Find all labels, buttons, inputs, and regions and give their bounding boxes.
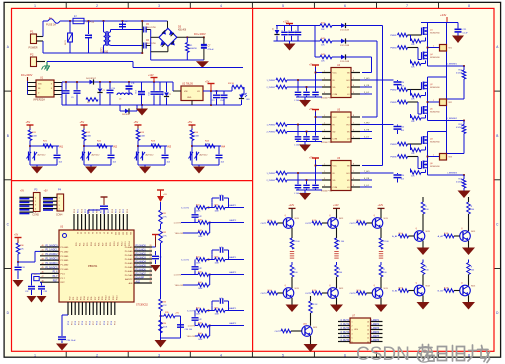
svg-text:1_OUT1: 1_OUT1: [187, 326, 195, 328]
svg-text:P311: P311: [109, 296, 111, 300]
svg-text:4: 4: [220, 4, 222, 8]
svg-text:P1.5/AD: P1.5/AD: [61, 268, 69, 271]
svg-text:P28: P28: [106, 243, 108, 246]
resistor Rg2a: [390, 87, 421, 92]
svg-text:47: 47: [42, 276, 44, 278]
svg-text:6: 6: [353, 85, 354, 87]
varistor RV1: [65, 33, 72, 45]
svg-text:R3 1K: R3 1K: [228, 83, 235, 85]
capacitor C24: [216, 146, 225, 165]
svg-text:3_OUT1: 3_OUT1: [181, 260, 190, 262]
svg-text:P1.2/ADC2: P1.2/ADC2: [46, 253, 59, 256]
svg-text:3_OUT1: 3_OUT1: [340, 320, 349, 322]
svg-text:IR2104 PT04: IR2104 PT04: [321, 191, 332, 193]
resistor Ra U4: [266, 78, 322, 82]
resistor R22: [97, 141, 107, 148]
svg-text:+5V: +5V: [163, 194, 167, 196]
wire: [69, 52, 71, 54]
svg-text:2_PWM1: 2_PWM1: [266, 132, 275, 134]
svg-text:2: 2: [324, 123, 325, 125]
svg-text:4.7K: 4.7K: [163, 236, 168, 238]
svg-text:100K: 100K: [194, 136, 200, 138]
ground: [27, 296, 37, 303]
svg-text:EA/VPP: EA/VPP: [125, 278, 133, 281]
svg-text:P0.1/AD1: P0.1/AD1: [136, 248, 147, 251]
bridge rectifier D5: [159, 26, 187, 47]
wire: [103, 45, 105, 53]
wire: [110, 44, 112, 46]
svg-text:P29: P29: [110, 243, 112, 246]
junction: [103, 20, 105, 22]
svg-text:YELLOW: YELLOW: [175, 233, 183, 235]
zener D7: [97, 82, 105, 105]
ground: [85, 167, 97, 174]
svg-text:P20: P20: [76, 243, 78, 246]
ground: [155, 340, 167, 348]
svg-text:9013: 9013: [426, 231, 430, 233]
watermark chinese characters: [419, 347, 432, 349]
svg-text:3: 3: [352, 330, 353, 332]
svg-text:B_B2: B_B2: [438, 291, 444, 293]
wire: [463, 79, 465, 99]
power +5V U5: [309, 109, 322, 117]
capacitor C6: [142, 40, 156, 48]
power +5V: [205, 81, 215, 92]
transistor cell Q31: [392, 197, 430, 255]
capacitor CX2: [119, 21, 128, 27]
svg-text:B_B1: B_B1: [392, 291, 398, 293]
diode D6: [86, 78, 97, 85]
svg-text:CON5: CON5: [32, 215, 39, 217]
capacitor C14: [157, 82, 164, 105]
wire: [150, 30, 152, 61]
svg-text:P1.2/AD: P1.2/AD: [61, 255, 69, 258]
svg-text:2: 2: [324, 78, 325, 80]
svg-text:5: 5: [353, 185, 354, 187]
capacitors U6 input: [294, 165, 322, 195]
svg-text:P0.2/AD2: P0.2/AD2: [136, 252, 147, 255]
svg-text:FUSE 3A: FUSE 3A: [46, 24, 56, 27]
wire: [141, 21, 143, 53]
resistor R35: [161, 312, 181, 318]
ground: [458, 191, 471, 199]
svg-text:33: 33: [87, 232, 89, 234]
svg-text:7: 7: [353, 123, 354, 125]
svg-text:3_OUT5: 3_OUT5: [340, 336, 349, 338]
svg-text:+12V: +12V: [378, 204, 384, 207]
resistor R14: [190, 129, 199, 141]
LED D10: [239, 93, 251, 105]
capacitors U5 input: [294, 116, 322, 146]
svg-text:9013: 9013: [313, 327, 317, 329]
junction: [160, 315, 162, 317]
capacitor C16: [220, 91, 228, 105]
resistor R30: [16, 243, 24, 254]
power +5V U4: [309, 65, 322, 73]
svg-text:P0.7/AD: P0.7/AD: [125, 274, 133, 277]
svg-text:I_SENSE1: I_SENSE1: [447, 64, 458, 66]
svg-text:P0.4/AD4: P0.4/AD4: [136, 260, 147, 263]
svg-text:100K: 100K: [198, 236, 203, 238]
svg-text:RST: RST: [53, 280, 58, 283]
resistor Rg1a: [390, 32, 421, 37]
svg-text:P1.0/AD: P1.0/AD: [61, 246, 69, 249]
svg-text:GND: GND: [187, 97, 192, 99]
wire: [160, 311, 162, 338]
svg-text:31: 31: [80, 232, 82, 234]
svg-text:D13 4148: D13 4148: [340, 61, 350, 63]
transistor cell Q42: [438, 260, 476, 310]
capacitor C36: [177, 325, 193, 331]
resistor Rb U6: [266, 178, 322, 182]
junction: [141, 20, 143, 22]
RC filter block B: [173, 247, 244, 290]
inductor L3: [117, 93, 132, 100]
svg-text:7: 7: [353, 78, 354, 80]
transistor cell Q11: [261, 204, 301, 258]
junction: [69, 20, 71, 22]
svg-text:+12V: +12V: [283, 19, 289, 23]
bottom AC rail wire: [42, 41, 44, 53]
resistor R24: [205, 141, 215, 148]
junction: [141, 104, 143, 106]
svg-text:U2 78L05: U2 78L05: [182, 83, 193, 86]
wire: [87, 210, 89, 214]
svg-text:COM: COM: [333, 139, 338, 141]
svg-text:+24V: +24V: [440, 13, 447, 17]
svg-text:R 1K: R 1K: [399, 233, 404, 235]
capacitor C12: [134, 82, 145, 105]
ground: [452, 36, 464, 44]
svg-text:A_A2: A_A2: [438, 235, 444, 238]
svg-text:P37: P37: [95, 297, 97, 300]
wire: [192, 145, 219, 147]
junction: [186, 36, 188, 38]
svg-text:P22: P22: [83, 243, 85, 246]
svg-text:9013: 9013: [384, 218, 388, 220]
svg-text:7: 7: [353, 171, 354, 173]
transistor Q50: [275, 296, 318, 352]
resistor Rg3a: [390, 141, 421, 146]
ground: [136, 109, 148, 116]
svg-text:HO: HO: [347, 125, 350, 127]
svg-text:AQY212: AQY212: [146, 154, 155, 157]
svg-text:P1.7: P1.7: [53, 275, 59, 278]
svg-text:P1.0/ADC0: P1.0/ADC0: [46, 244, 59, 247]
svg-text:POWER: POWER: [29, 47, 38, 50]
svg-text:OUT6: OUT6: [350, 293, 357, 295]
wire: [160, 243, 162, 250]
svg-text:AQY212: AQY212: [200, 154, 209, 157]
wire: [463, 134, 465, 154]
svg-text:36: 36: [99, 232, 101, 234]
svg-text:YELLOW: YELLOW: [187, 336, 195, 338]
svg-text:I_SENSE2: I_SENSE2: [447, 118, 458, 120]
svg-text:OUT4: OUT4: [261, 293, 268, 295]
svg-text:P0.4/AD: P0.4/AD: [125, 262, 133, 265]
wire: [27, 81, 29, 95]
MOSFET top rail wire: [421, 22, 458, 24]
junction: [153, 81, 155, 83]
svg-text:R 100: R 100: [294, 241, 300, 243]
svg-text:100K: 100K: [140, 136, 146, 138]
capacitor C34: [58, 337, 76, 343]
svg-text:6: 6: [352, 342, 353, 344]
svg-text:10K: 10K: [43, 144, 47, 146]
power +5V block 2: [80, 120, 88, 128]
power +5V U6: [309, 158, 322, 166]
junction: [203, 36, 205, 38]
wire: [29, 141, 31, 166]
svg-text:P25: P25: [95, 243, 97, 246]
svg-text:24: 24: [150, 261, 152, 263]
resistor R34: [159, 320, 168, 333]
switch S1: [27, 152, 47, 161]
svg-text:P0.6/AD6: P0.6/AD6: [136, 268, 147, 271]
svg-text:P38: P38: [98, 297, 100, 300]
junction: [109, 81, 111, 83]
ground: [151, 265, 161, 272]
RC filter block A: [173, 195, 244, 238]
resistor R32: [159, 229, 168, 243]
wire: [332, 40, 341, 42]
svg-text:D6 FR107: D6 FR107: [86, 78, 97, 80]
svg-text:4: 4: [352, 334, 353, 336]
red section divider horizontal: [12, 180, 253, 182]
capacitor Cboot U4: [394, 80, 406, 90]
svg-text:IN3: IN3: [167, 145, 172, 149]
svg-text:+12V: +12V: [148, 74, 154, 77]
ground: [299, 145, 311, 152]
wire: [276, 25, 315, 27]
svg-text:100KW: 100KW: [190, 48, 198, 50]
junction: [83, 145, 85, 147]
svg-text:3_OUT4: 3_OUT4: [340, 332, 349, 334]
svg-text:P0.7/AD7: P0.7/AD7: [136, 272, 147, 275]
wire: [332, 56, 341, 58]
junction: [210, 90, 212, 92]
svg-text:REC/07W: REC/07W: [146, 43, 157, 45]
resistor Rb U5: [266, 130, 322, 134]
svg-text:P0.3/AD: P0.3/AD: [125, 258, 133, 261]
svg-text:P36: P36: [91, 297, 93, 300]
wire: [69, 42, 71, 53]
wire: [60, 20, 168, 22]
svg-text:DC+300V: DC+300V: [194, 32, 206, 36]
MOSFET Q3b: [422, 161, 440, 169]
svg-text:3_OUT3: 3_OUT3: [340, 328, 349, 330]
svg-text:P1.1/AD: P1.1/AD: [61, 250, 69, 253]
svg-text:+5V: +5V: [20, 191, 25, 193]
earth ground symbol: [42, 62, 51, 71]
svg-text:IR2104 PT04: IR2104 PT04: [321, 98, 332, 100]
svg-text:IN1: IN1: [59, 145, 64, 149]
svg-text:IN2: IN2: [113, 145, 118, 149]
svg-text:8: 8: [468, 4, 470, 8]
svg-text:VO: VO: [197, 91, 200, 93]
SMPS bottom rail wire: [62, 104, 241, 106]
svg-text:VIPER22A: VIPER22A: [33, 99, 45, 102]
wire: [69, 21, 71, 33]
wire: [192, 164, 219, 166]
capacitor C33: [38, 287, 47, 296]
svg-text:P312: P312: [113, 296, 115, 300]
junction: [29, 145, 31, 147]
svg-text:35: 35: [95, 232, 97, 234]
svg-text:3_OUT1: 3_OUT1: [181, 208, 190, 210]
svg-text:LO: LO: [347, 139, 350, 141]
SMPS top rail wire: [62, 81, 173, 83]
capacitor C22: [108, 146, 117, 165]
svg-text:2J: 2J: [74, 16, 76, 18]
svg-text:P35: P35: [88, 297, 90, 300]
svg-text:LO: LO: [347, 94, 350, 96]
wire: [180, 316, 182, 338]
svg-text:YELLOW: YELLOW: [175, 285, 183, 287]
svg-text:2_PWM1: 2_PWM1: [266, 180, 275, 182]
wire: [332, 25, 341, 27]
svg-text:D11 4148: D11 4148: [340, 30, 350, 32]
svg-text:10K: 10K: [151, 144, 155, 146]
svg-text:100K: 100K: [196, 263, 201, 265]
wire: [428, 131, 447, 133]
svg-text:1: 1: [324, 164, 325, 166]
svg-text:OUT1: OUT1: [261, 223, 268, 225]
svg-text:Z3: Z3: [273, 28, 275, 30]
ground: [37, 296, 47, 303]
svg-text:30: 30: [76, 232, 78, 234]
svg-text:20: 20: [150, 245, 152, 247]
svg-text:310: 310: [114, 232, 116, 235]
connector W3: [428, 154, 453, 161]
junction: [76, 81, 78, 83]
svg-text:P31: P31: [73, 297, 75, 300]
svg-text:311: 311: [118, 232, 120, 235]
svg-text:+5V: +5V: [14, 235, 19, 237]
svg-text:P0.1/AD: P0.1/AD: [125, 250, 133, 253]
svg-text:VCC: VCC: [333, 73, 338, 75]
wire: [172, 82, 174, 91]
svg-text:8: 8: [468, 353, 470, 357]
svg-text:P1.6: P1.6: [53, 271, 59, 274]
svg-text:4: 4: [220, 353, 222, 357]
capacitor C31: [15, 262, 27, 279]
ground: [196, 61, 209, 67]
connector P1 AC input: [29, 30, 44, 50]
svg-text:37: 37: [102, 232, 104, 234]
wire: [62, 314, 68, 316]
MOSFET bus wire: [446, 23, 448, 161]
resistor R42: [315, 38, 332, 47]
svg-text:P21: P21: [80, 243, 82, 246]
wire: [346, 56, 372, 58]
zener D11: [273, 26, 280, 42]
svg-text:39: 39: [110, 232, 112, 234]
svg-text:P214: P214: [129, 242, 131, 246]
svg-text:P1.3/AD: P1.3/AD: [61, 259, 69, 262]
svg-text:6: 6: [344, 4, 346, 8]
svg-text:P213: P213: [125, 242, 127, 246]
svg-text:29: 29: [150, 281, 152, 283]
wire: [428, 76, 447, 78]
power +5V block 4: [188, 120, 196, 128]
wire: [428, 120, 465, 122]
svg-text:NCE01H10: NCE01H10: [430, 57, 440, 59]
power VCC right: [152, 235, 159, 248]
wire: [83, 141, 85, 166]
wire: [54, 82, 62, 84]
resistor Ra U5: [266, 123, 322, 127]
svg-text:OUT3: OUT3: [350, 223, 357, 225]
svg-text:0.5/5W: 0.5/5W: [456, 182, 462, 184]
svg-text:21: 21: [150, 249, 152, 251]
svg-text:P0.5/AD: P0.5/AD: [125, 266, 133, 269]
svg-text:IR2104 PT04: IR2104 PT04: [321, 142, 332, 144]
transistor cell Q22: [305, 262, 343, 312]
svg-text:+5V: +5V: [134, 120, 139, 124]
wire: [88, 38, 90, 53]
connector P2 earth: [30, 53, 45, 67]
svg-text:1_OUT1: 1_OUT1: [173, 223, 181, 225]
svg-text:VCC: VCC: [333, 117, 338, 119]
svg-text:0.5/5W: 0.5/5W: [456, 73, 462, 75]
svg-text:2: 2: [324, 171, 325, 173]
svg-text:R 1K: R 1K: [312, 290, 317, 292]
svg-text:KBL406: KBL406: [178, 30, 187, 32]
wire: [274, 40, 316, 42]
svg-text:100K: 100K: [86, 136, 92, 138]
svg-text:P0.0/AD0: P0.0/AD0: [136, 244, 147, 247]
svg-text:16: 16: [367, 322, 369, 324]
svg-text:R 1K: R 1K: [312, 220, 317, 222]
svg-text:8: 8: [353, 71, 354, 73]
resistor Rb U4: [266, 85, 322, 89]
svg-text:4: 4: [324, 137, 325, 139]
svg-text:1: 1: [433, 46, 434, 48]
svg-text:P27: P27: [102, 243, 104, 246]
wire: [30, 164, 57, 166]
svg-text:NCE01H10: NCE01H10: [430, 33, 440, 35]
svg-text:1: 1: [324, 71, 325, 73]
svg-text:LAMP2: LAMP2: [229, 322, 237, 325]
svg-text:100K: 100K: [196, 211, 201, 213]
svg-text:470uF: 470uF: [208, 49, 215, 51]
svg-text:1: 1: [433, 155, 434, 157]
svg-text:P1: P1: [30, 30, 34, 34]
wire: [30, 145, 57, 147]
svg-text:NCE01H10: NCE01H10: [430, 87, 440, 89]
svg-text:27: 27: [150, 273, 152, 275]
svg-text:LAMP1: LAMP1: [229, 204, 237, 207]
svg-text:AQY212: AQY212: [92, 154, 101, 157]
wire: [137, 141, 139, 166]
wire: [427, 23, 429, 67]
wire: [160, 250, 162, 299]
svg-text:P212: P212: [121, 242, 123, 246]
wire: [110, 30, 112, 33]
svg-text:C33: C33: [44, 291, 47, 293]
svg-text:LAMP2: LAMP2: [372, 323, 380, 326]
svg-text:A_A1: A_A1: [392, 235, 398, 238]
junction: [210, 104, 212, 106]
wire: [346, 25, 383, 27]
capacitor C32: [25, 287, 35, 296]
junction: [65, 81, 67, 83]
svg-text:STC89C52: STC89C52: [136, 304, 148, 307]
svg-text:45: 45: [42, 267, 44, 269]
wire: [151, 36, 159, 38]
wire: [427, 77, 429, 121]
